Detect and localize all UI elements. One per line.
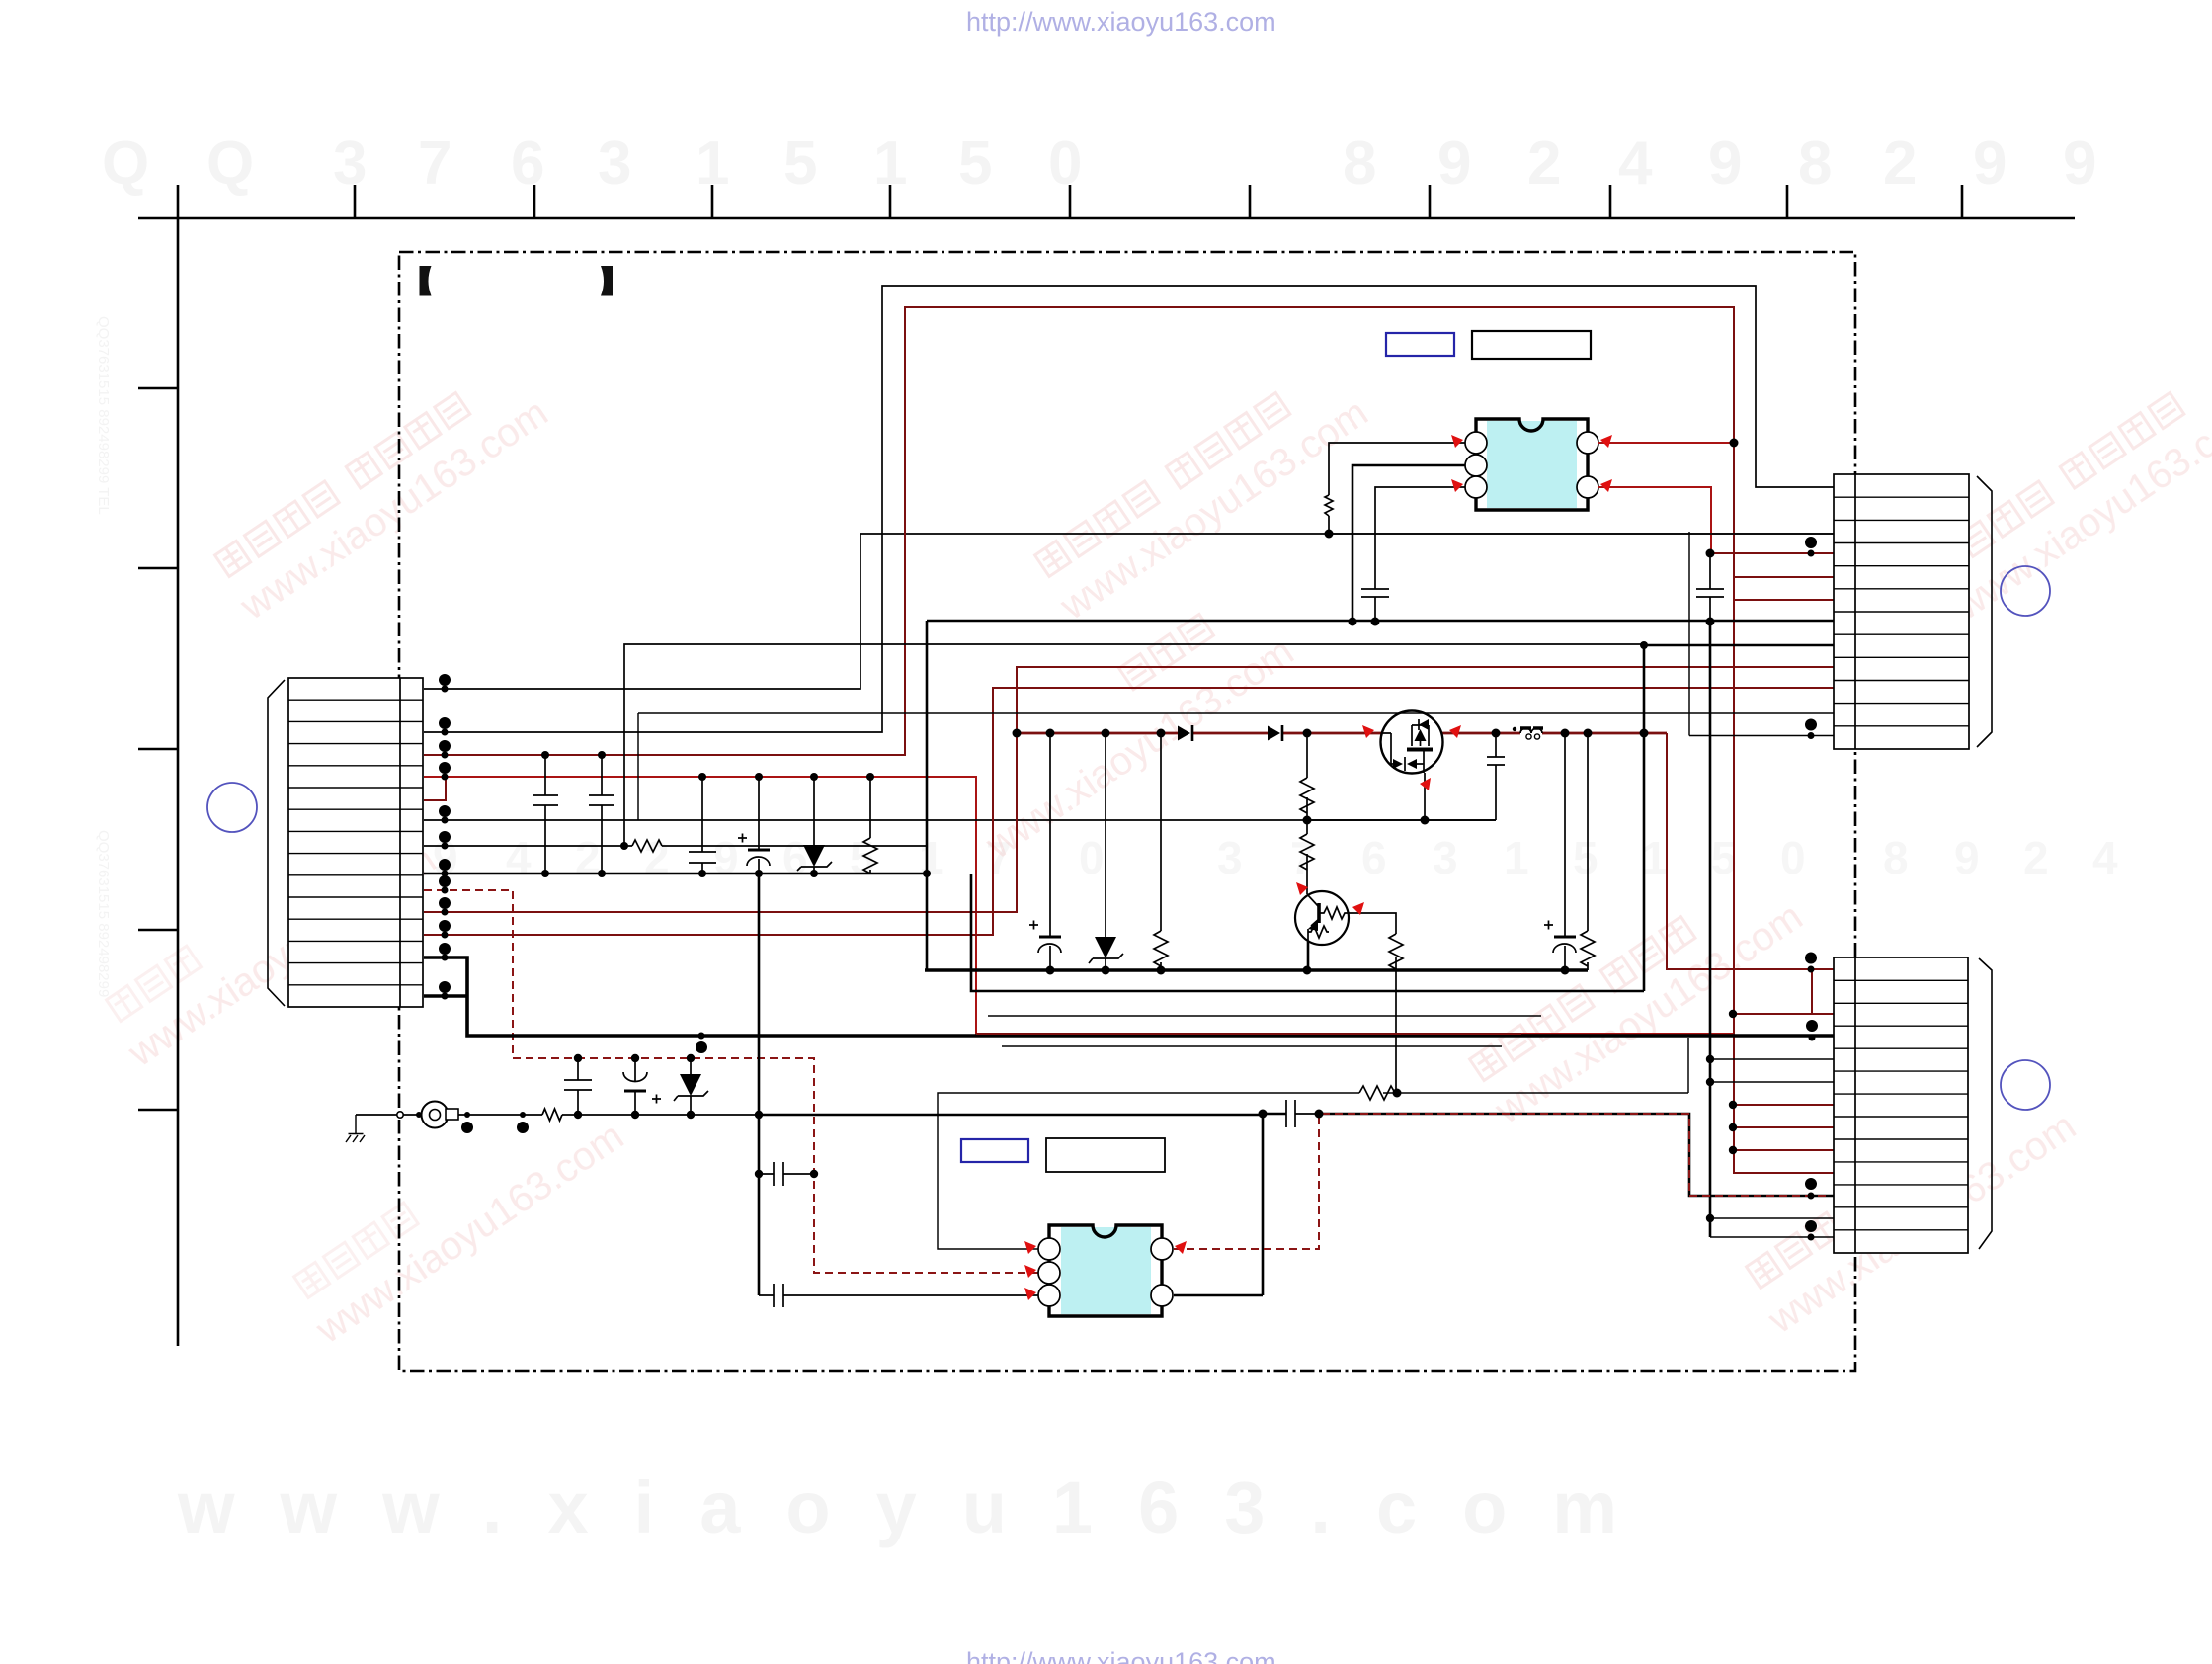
- arrow IC2 pin2: [1024, 1265, 1036, 1278]
- resistor R in row8 wire: [632, 840, 662, 852]
- IC1 body: [1487, 421, 1577, 508]
- wire IC2 pin4 thick up: [1174, 1294, 1263, 1297]
- ruler tick marks: [355, 185, 1962, 218]
- wire right connector rows 11-12 feeds: [638, 713, 1834, 820]
- wire feeds of rows12-13 lower connector: [1710, 1218, 1834, 1237]
- wire IC1 pin4 red to right: [1598, 442, 1734, 444]
- resistor R8: [1325, 495, 1333, 516]
- ground symbol: [346, 1115, 365, 1142]
- wire net row13 thick black down to long bottom run: [424, 957, 1834, 1036]
- arrow MOSFET right: [1449, 725, 1461, 738]
- arrow IC1 pin5: [1600, 479, 1612, 492]
- wire red branch rows 7-9 of bottom connector: [1733, 1105, 1834, 1173]
- wire net row5 bright red down to middle red run: [424, 777, 1733, 1034]
- node open junction on border: [397, 1112, 403, 1118]
- connector CN1 pin dots: [439, 674, 451, 1000]
- wire net row9 ground bus of input filter: [424, 873, 927, 875]
- resistor divider chain top R4: [1300, 733, 1314, 820]
- wire IC2 pin1 loop via resistor to transistor leg: [938, 1093, 1688, 1249]
- wire CN3 row5 row6 branches: [1710, 1059, 1834, 1082]
- resistor R6: [1389, 934, 1403, 969]
- junction dots top area: [1325, 439, 1818, 740]
- IC2 pins: [1038, 1238, 1173, 1306]
- junction dots ground line: [574, 1033, 763, 1120]
- wire IC1 pin3 via capacitor C9: [1361, 487, 1465, 622]
- capacitor C5 electrolytic input: [1029, 733, 1061, 970]
- wire net row3 up-over to right connector pin1: [424, 286, 1834, 732]
- wire bus feed from row1 of bottom connector: [1667, 733, 1834, 969]
- connector CN2 reference circle: [2001, 566, 2050, 616]
- part number blue box: [961, 1139, 1028, 1162]
- capacitor C1 on row4 net: [533, 755, 558, 874]
- junction dots bottom area: [1259, 1089, 1402, 1119]
- part number blue box: [1386, 333, 1454, 356]
- arrow IC2 pin3: [1024, 1288, 1036, 1300]
- wire vertical trunk x1731: [1709, 622, 1712, 1237]
- svg-text:http://www.xiaoyu163.com: http://www.xiaoyu163.com: [966, 7, 1276, 37]
- wire vertical from filter bus down to bottom IC area: [758, 874, 761, 1295]
- wire black plus red dash to lower right connector: [1319, 1114, 1834, 1196]
- wire red branch to right connector row6: [1734, 599, 1834, 601]
- svg-text:http://www.xiaoyu163.com: http://www.xiaoyu163.com: [966, 1647, 1276, 1664]
- wire thick link y1127: [1263, 1114, 1286, 1295]
- resistor R9 in ground line: [542, 1109, 562, 1121]
- ruler left side ticks: [138, 388, 178, 1110]
- transistor Q2 digital npn: [1295, 891, 1349, 945]
- pink diagonal watermarks: [97, 357, 2212, 1352]
- capacitor C6 gate: [1487, 733, 1505, 820]
- arrow IC1 pin3: [1451, 479, 1463, 492]
- svg-text:QQ37631515 892498299: QQ37631515 892498299: [95, 830, 112, 997]
- capacitor C12 between vertical and dashed net: [755, 1162, 818, 1186]
- connector CN3 reference circle: [2001, 1060, 2050, 1110]
- ring terminal lug: [422, 1102, 459, 1128]
- wire red vertical continues to bottom right connector branches: [1733, 600, 1735, 1173]
- wire red jumper rows1-3 bottom connector: [1811, 969, 1813, 1014]
- wire red jog rows5-6 of left connector: [424, 777, 446, 800]
- twisted pair marker dots: [416, 1112, 529, 1133]
- zener diode D1 on row5 net: [797, 777, 832, 874]
- zener diode D2: [1089, 733, 1123, 970]
- wire net row7 black to divider node: [424, 819, 1496, 821]
- wire IC1 pin1 to resistor leg: [1329, 443, 1465, 534]
- wire long runs lower middle: [971, 874, 1644, 991]
- connector CN3 body: [1834, 957, 1968, 1253]
- wire net row11 dark red up to main bus feed: [424, 667, 1834, 912]
- title bracket right: [601, 266, 613, 296]
- wire cap branch at 1731: [1696, 553, 1724, 622]
- junction dots on left nets: [541, 641, 1648, 877]
- wire gate feedback line: [1307, 773, 1496, 820]
- IC2 body: [1061, 1227, 1151, 1314]
- svg-text:QQ37631515 892498299 TEL: QQ37631515 892498299 TEL: [95, 316, 112, 515]
- node main bus dark red: [1017, 732, 1667, 735]
- arrow MOSFET left: [1362, 725, 1374, 738]
- wire red dash from IC2 pin5 up: [1174, 1114, 1319, 1249]
- arrow IC1 pin4: [1600, 435, 1612, 448]
- connector CN1 body: [288, 678, 423, 1007]
- IC1 pins: [1465, 432, 1598, 498]
- connector CN1 bracket: [268, 680, 285, 1006]
- capacitor C3 on row5 net: [689, 777, 716, 874]
- part number black box: [1046, 1138, 1165, 1172]
- arrow Q2 right: [1352, 902, 1364, 915]
- resistor divider chain bottom R5: [1300, 820, 1314, 894]
- wire long mid line to right connector row8: [1644, 644, 1834, 647]
- wire red branch row3 of bottom connector: [1733, 1013, 1834, 1015]
- arrow MOSFET bottom: [1420, 778, 1431, 790]
- wire net row12 dark red up-over: [424, 688, 1834, 935]
- capacitor C4 electrolytic on row5 net: [738, 777, 770, 874]
- capacitor C14 in series: [1286, 1100, 1319, 1127]
- diode D3 on bus: [1178, 725, 1192, 741]
- capacitor C11 electrolytic: [623, 1058, 661, 1115]
- arrow IC2 pin1: [1024, 1241, 1036, 1254]
- arrow IC1 pin1: [1451, 435, 1463, 448]
- diode D4 on bus: [1268, 725, 1282, 741]
- ruler left long vertical: [177, 185, 180, 1346]
- wire output sense up to right connector: [1643, 645, 1646, 991]
- capacitor C2 on row4 net: [589, 755, 614, 874]
- capacitor C8 output electrolytic: [1544, 733, 1576, 970]
- wire net row15 thick black down-right: [424, 994, 467, 998]
- wire net row8 black with series resistor: [424, 845, 927, 847]
- wire net row10 dashed red to bottom IC pin2: [424, 890, 1038, 1273]
- connector CN2 bracket: [1977, 476, 1992, 747]
- wire red branch to right connector row5: [1734, 576, 1834, 578]
- wire vertical link x632 row8 up to long mid line: [624, 644, 1644, 846]
- resistor R10: [1359, 1086, 1395, 1100]
- wire long thin rail y538: [1329, 533, 1834, 535]
- arrow IC2 pin5: [1175, 1241, 1187, 1254]
- resistor R7 output: [1581, 733, 1595, 970]
- capacitor C10: [564, 1058, 592, 1115]
- resistor R3: [1154, 733, 1168, 970]
- MOSFET Q1: [1381, 711, 1443, 774]
- dash-dot border of power board block: [399, 252, 1855, 1371]
- ruler horizontal line: [138, 217, 2075, 220]
- capacitor C13 in series to bottom IC pin3: [759, 1284, 1038, 1307]
- svg-text:www.xiaoyu163.com: www.xiaoyu163.com: [177, 1466, 1663, 1548]
- resistor R2 on row5 net: [863, 777, 877, 874]
- part number black box: [1472, 331, 1591, 359]
- wire mid rail thick to right connector: [927, 620, 1834, 623]
- wire IC1 pin5 dark red to right: [1598, 487, 1711, 553]
- connector CN2 body: [1834, 474, 1969, 749]
- wire feed of resistor line from row4 net: [1687, 1038, 1689, 1093]
- wire Q2 collector to resistor leg: [1349, 913, 1396, 1093]
- wire net row1 to top IC line: [424, 534, 1834, 689]
- connector CN1 reference circle: [207, 783, 257, 832]
- inductor L1: [1513, 727, 1543, 739]
- title bracket left: [420, 266, 432, 296]
- wire net row4 dark red over the top to right: [424, 307, 1734, 755]
- zener diode D5: [674, 1058, 708, 1115]
- wire bottom return bus: [926, 621, 929, 970]
- arrow Q2 top: [1296, 882, 1308, 895]
- wire dark red branch into right connector row4: [1710, 552, 1834, 554]
- junction dots centre circuit: [1013, 729, 1649, 975]
- connector CN3 pin dots: [1706, 953, 1818, 1241]
- wire chassis ground line: [356, 1114, 759, 1116]
- connector CN3 bracket: [1979, 958, 1992, 1249]
- wire IC1 pin2 thick to mid rail: [1352, 465, 1465, 622]
